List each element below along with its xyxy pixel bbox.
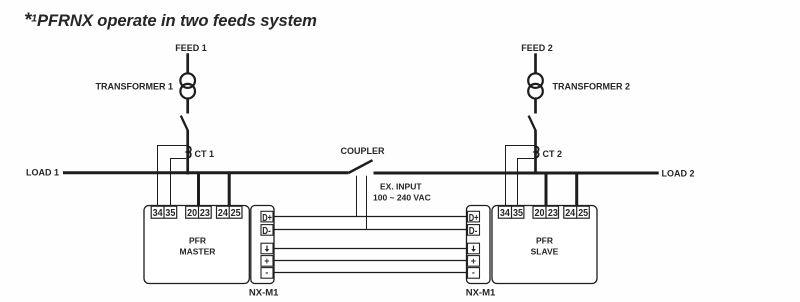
PFR SLAVE unit U2 [492, 206, 597, 284]
svg-text:LOAD 2: LOAD 2 [662, 168, 695, 178]
svg-text:NX-M1: NX-M1 [466, 288, 496, 299]
transformer T1 [180, 73, 195, 98]
wire bus to slave terminal 24/25 [575, 172, 578, 207]
svg-text:*1PFRNX operate in two feeds s: *1PFRNX operate in two feeds system [24, 10, 317, 31]
svg-text:D-: D- [262, 225, 271, 237]
wire CT2 S1 to terminal 34 [506, 146, 536, 207]
svg-text:FEED 2: FEED 2 [521, 43, 553, 53]
bus right segment [374, 172, 659, 175]
wire ex-input L [356, 176, 358, 217]
transformer T2 [528, 73, 543, 98]
svg-text:100 ~ 240 VAC: 100 ~ 240 VAC [373, 192, 431, 202]
svg-text:35: 35 [165, 208, 175, 219]
slave pin + [468, 256, 480, 267]
wire CT1 S1 to terminal 34 [158, 146, 188, 207]
svg-text:-: - [472, 267, 475, 277]
svg-text:PFR: PFR [189, 235, 206, 245]
wire feed1 mid [186, 98, 189, 114]
svg-text:20: 20 [535, 208, 545, 219]
svg-text:EX. INPUT: EX. INPUT [380, 182, 422, 192]
master terminal numbers [153, 208, 241, 219]
master terminal block 34|35 [151, 206, 177, 218]
bus left segment [63, 171, 349, 174]
breaker switch 1 [181, 116, 188, 131]
label EX. INPUT 100-240 VAC [373, 182, 431, 203]
slave terminal numbers [500, 208, 589, 219]
svg-text:23: 23 [548, 208, 558, 219]
svg-text:NX-M1: NX-M1 [249, 288, 279, 299]
wire minus bus [273, 272, 468, 274]
slave pin D+ [468, 211, 480, 224]
svg-text:+: + [264, 256, 269, 266]
wire plus bus [273, 260, 468, 262]
CT CT2 [534, 146, 538, 157]
master terminal block 24|25 [217, 206, 243, 218]
label PFR SLAVE [531, 235, 559, 256]
master pin + [261, 256, 273, 267]
master pin shield [261, 243, 273, 254]
wire feed2 upper [534, 53, 537, 74]
svg-text:24: 24 [218, 208, 228, 219]
slave pin D- [468, 225, 480, 238]
breaker switch 2 [529, 116, 536, 131]
wire feed2 mid [534, 98, 537, 114]
master pin - [261, 267, 273, 278]
wire feed1 upper [186, 53, 189, 74]
wire feed1 lower [186, 131, 189, 175]
svg-text:34: 34 [153, 208, 163, 219]
slave NX-M1 connector [467, 206, 491, 284]
wire CT2 S2 to terminal 35 [518, 159, 535, 207]
PFR MASTER unit U1 [144, 206, 249, 284]
svg-text:20: 20 [187, 208, 197, 219]
svg-text:D+: D+ [469, 212, 479, 224]
svg-text:35: 35 [513, 208, 523, 219]
svg-text:COUPLER: COUPLER [341, 146, 386, 156]
wire ex-input N [366, 176, 368, 230]
wire D- bus [273, 229, 468, 231]
master terminal block 20|23 [186, 206, 212, 218]
label PFR MASTER [180, 235, 216, 256]
svg-text:D+: D+ [262, 212, 272, 224]
svg-text:PFR: PFR [536, 235, 553, 245]
svg-text:24: 24 [565, 208, 575, 219]
slave pin - [468, 267, 480, 278]
svg-text:34: 34 [500, 208, 510, 219]
wire bus to slave terminal 20/23 [545, 172, 548, 207]
svg-text:-: - [265, 267, 268, 277]
svg-text:25: 25 [578, 208, 588, 219]
svg-text:TRANSFORMER 2: TRANSFORMER 2 [553, 81, 631, 91]
wire bus to master terminal 24/25 [228, 172, 231, 207]
svg-text:CT 2: CT 2 [543, 149, 563, 159]
wire CT1 S2 to terminal 35 [171, 159, 187, 207]
wire feed2 lower [534, 131, 537, 175]
svg-text:D-: D- [469, 225, 478, 237]
master NX-M1 connector [251, 206, 274, 284]
svg-text:TRANSFORMER 1: TRANSFORMER 1 [95, 81, 173, 91]
svg-text:23: 23 [200, 208, 210, 219]
wire D+ bus [273, 216, 468, 218]
wire shield bus [273, 248, 468, 250]
slave terminal block 20|23 [533, 206, 559, 218]
master pin D+ [261, 211, 273, 224]
master pin D- [261, 225, 273, 238]
svg-text:+: + [471, 256, 476, 266]
svg-text:CT 1: CT 1 [195, 149, 215, 159]
wire bus to master terminal 20/23 [197, 172, 200, 207]
slave pin shield [468, 243, 480, 254]
svg-text:25: 25 [231, 208, 241, 219]
slave terminal block 24|25 [564, 206, 590, 218]
svg-text:FEED 1: FEED 1 [175, 43, 207, 53]
svg-text:LOAD 1: LOAD 1 [26, 168, 59, 178]
CT CT1 [187, 147, 191, 158]
coupler switch blade [349, 160, 373, 173]
svg-text:MASTER: MASTER [180, 246, 216, 256]
slave terminal block 34|35 [498, 206, 524, 218]
svg-text:SLAVE: SLAVE [531, 246, 559, 256]
